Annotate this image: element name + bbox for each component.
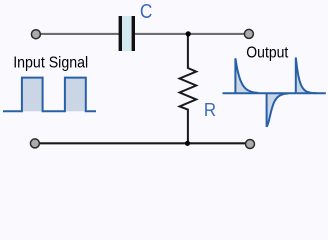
svg-text:C: C	[140, 1, 153, 23]
svg-text:R: R	[204, 99, 216, 120]
svg-text:Output: Output	[246, 45, 288, 62]
svg-text:Input Signal: Input Signal	[13, 55, 88, 72]
